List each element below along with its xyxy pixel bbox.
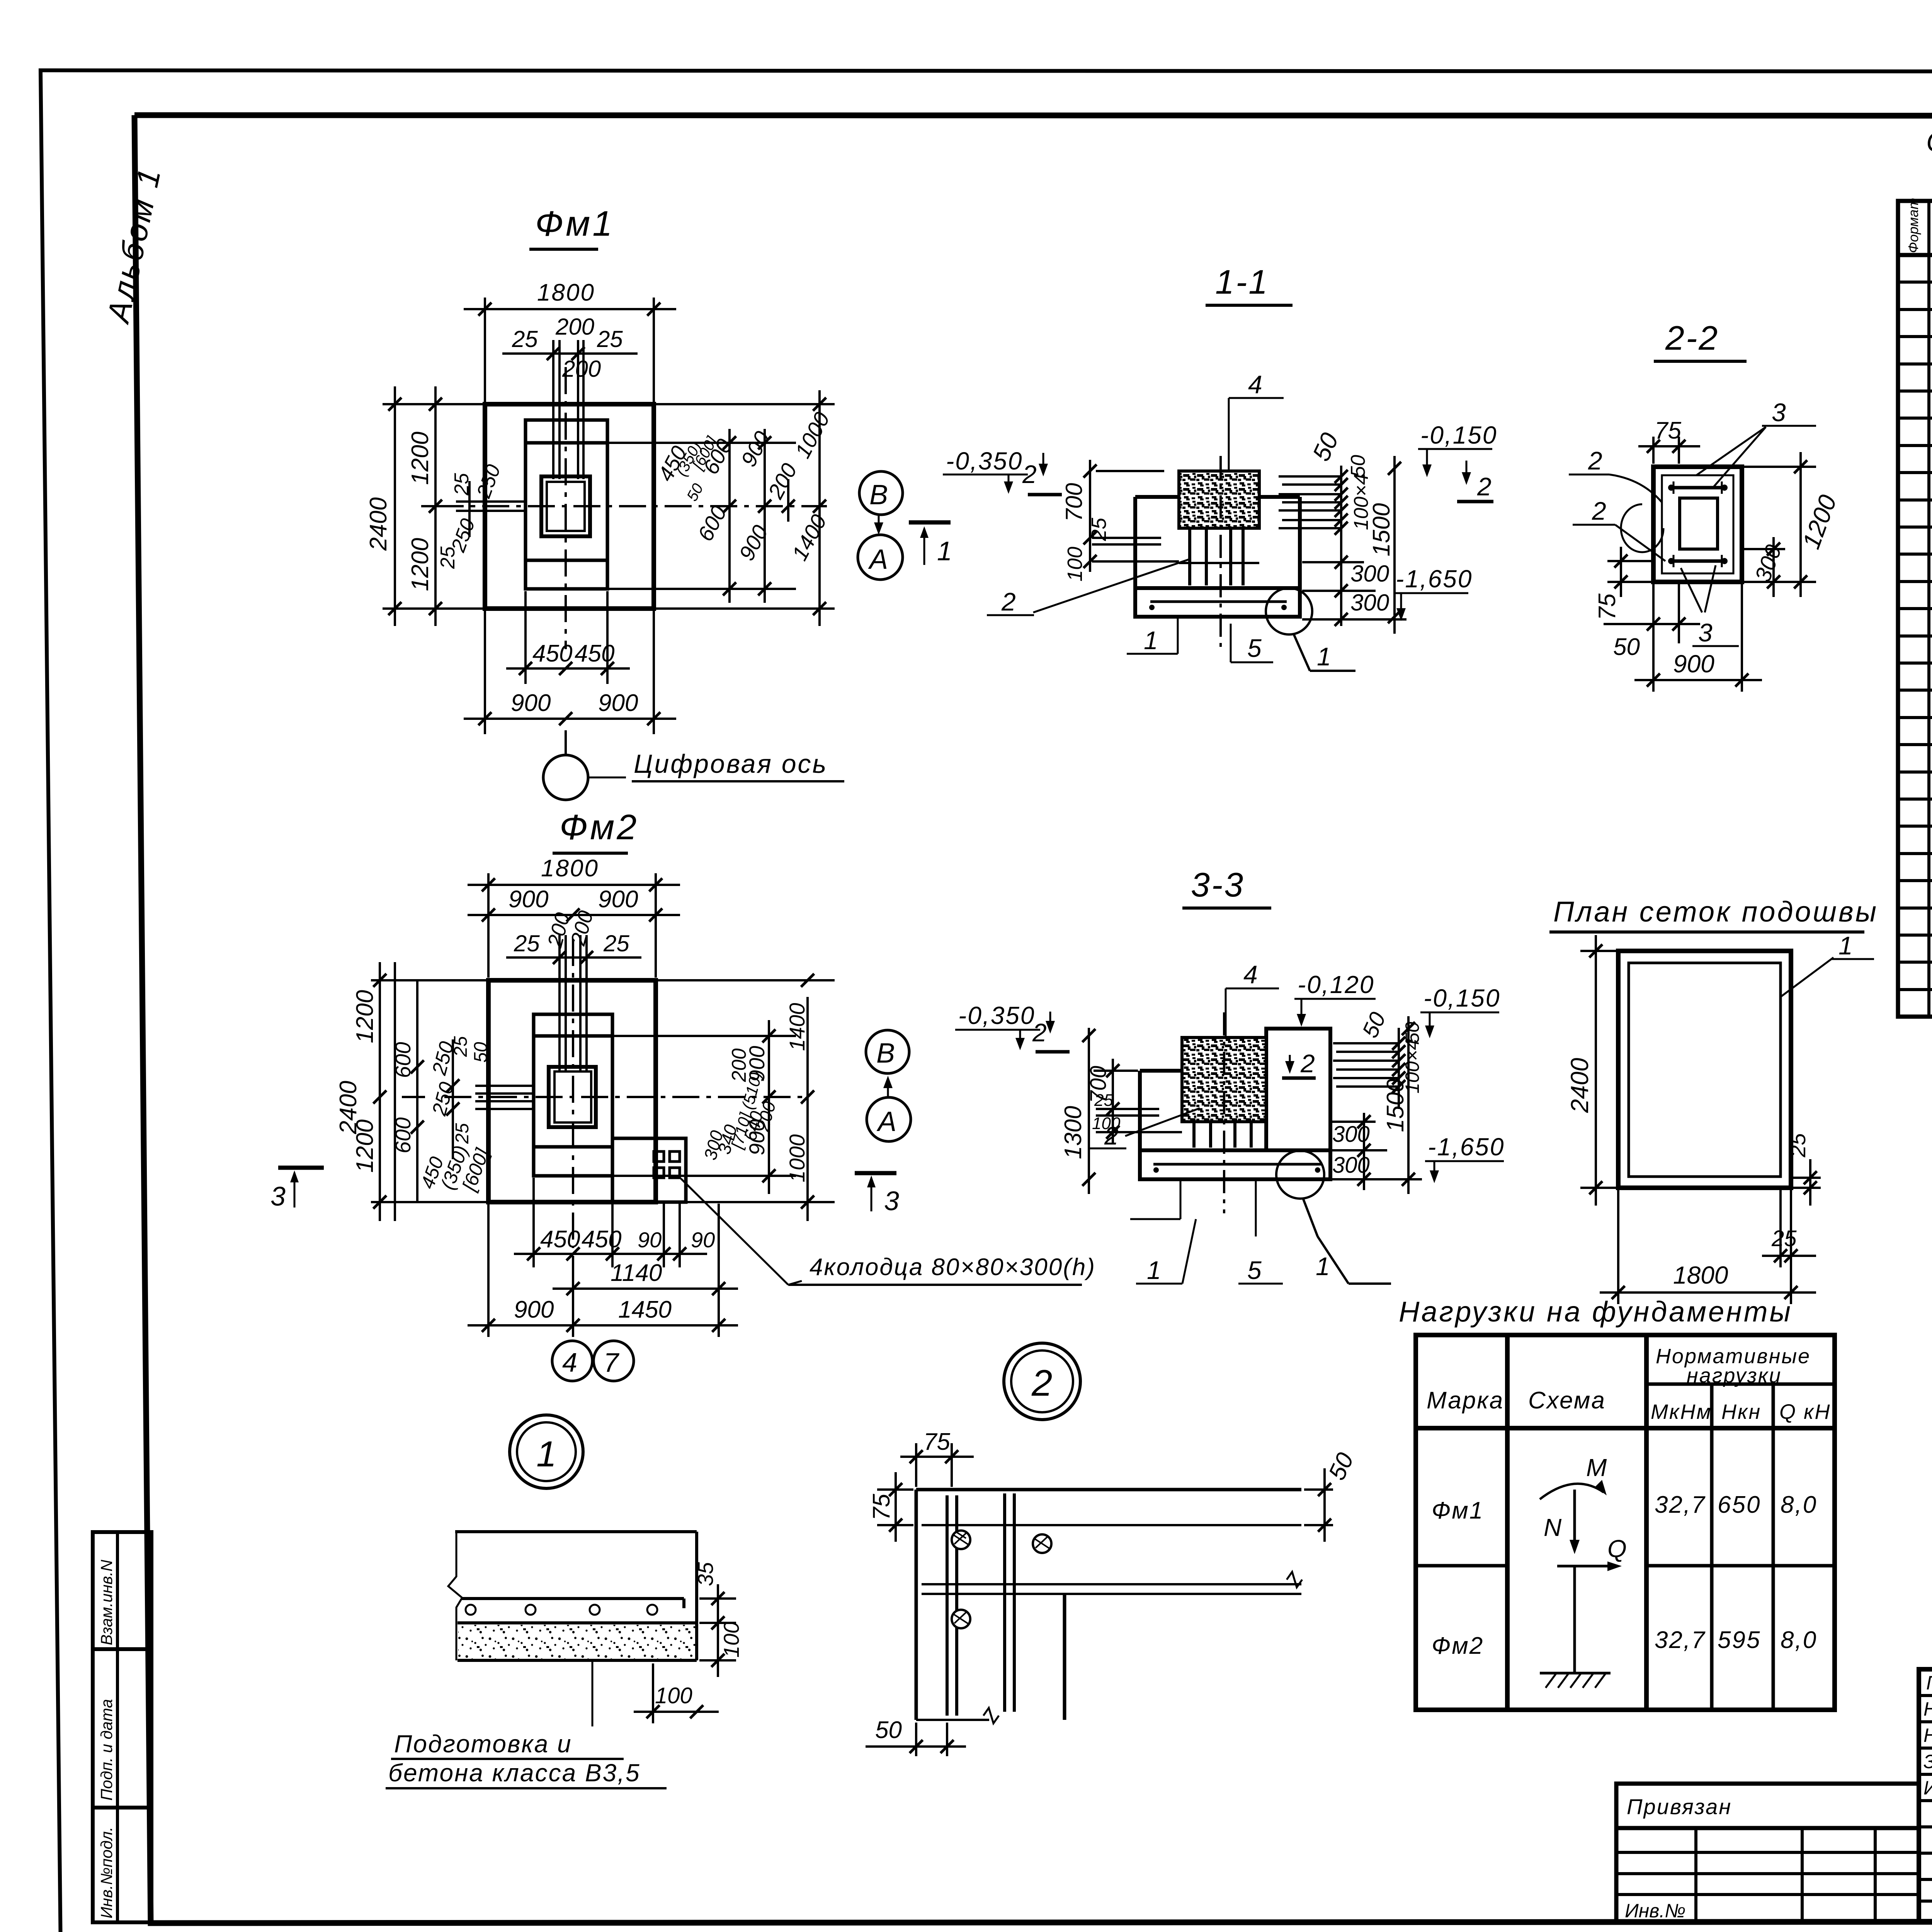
Fm1 top dimension 1800	[464, 298, 676, 402]
node 2 dims 75 75 50 50	[900, 1443, 974, 1487]
svg-text:600: 600	[391, 1117, 415, 1153]
svg-text:75: 75	[923, 1429, 950, 1455]
svg-text:5: 5	[1247, 1256, 1262, 1284]
svg-text:1500: 1500	[1382, 1079, 1409, 1132]
Fm2 bottom dims 450 450 90 90	[514, 1178, 707, 1267]
left margin boxes	[93, 1532, 151, 1922]
Fm2 axis circles B A	[866, 1030, 911, 1141]
section 3-3 right spacing marks	[1333, 1028, 1399, 1109]
svg-text:1: 1	[1316, 1252, 1330, 1281]
Fm1 left small dims 25 250 250 25	[456, 481, 526, 537]
plan setok leader 1	[1781, 931, 1874, 997]
svg-text:5: 5	[1247, 634, 1262, 662]
svg-text:Цифровая ось: Цифровая ось	[634, 749, 828, 779]
svg-text:Спецификация элементов монол: Спецификация элементов монолитной	[1926, 127, 1932, 158]
svg-text:900: 900	[514, 1296, 554, 1323]
loads table data	[1432, 1492, 1817, 1659]
svg-text:25: 25	[1094, 1091, 1113, 1110]
svg-text:450: 450	[575, 640, 614, 667]
svg-text:25: 25	[1087, 517, 1111, 541]
section 1-1 rebars	[1190, 528, 1243, 585]
Fm2 top small dims 25 200 200 25	[506, 935, 641, 1070]
svg-text:90: 90	[638, 1228, 662, 1252]
svg-text:3: 3	[884, 1186, 899, 1216]
section 3-3 level -1,650	[1425, 1133, 1505, 1183]
section 2-2 mesh bars	[1668, 481, 1727, 567]
svg-text:8,0: 8,0	[1781, 1492, 1817, 1518]
svg-text:Марка: Марка	[1427, 1387, 1504, 1414]
svg-text:2: 2	[1477, 472, 1492, 501]
node 1 stipple band (concrete preparation)	[458, 1625, 695, 1659]
svg-text:1450: 1450	[618, 1296, 672, 1323]
svg-text:2: 2	[1001, 587, 1016, 616]
section 3-3 leader 2	[1090, 1108, 1200, 1150]
Fm1 bottom dims 450 450 900 900	[464, 591, 676, 734]
svg-text:Н.контр.: Н.контр.	[1923, 1725, 1932, 1746]
svg-text:1200: 1200	[407, 432, 434, 485]
node 1 dims 35 100 100	[634, 1584, 736, 1723]
svg-text:3: 3	[1772, 398, 1786, 427]
Fm1 center axes	[437, 367, 827, 649]
node 1 detail circle	[510, 1415, 583, 1488]
node 2 vertical rebars	[947, 1493, 1014, 1716]
specification table grid	[1898, 201, 1932, 1017]
svg-text:Инв.№: Инв.№	[1625, 1900, 1685, 1922]
title block signature table	[1919, 1669, 1932, 1922]
svg-text:595: 595	[1718, 1627, 1761, 1653]
svg-text:Зав.гр.: Зав.гр.	[1923, 1751, 1932, 1772]
section 1-1 right dims 300 300 1500	[1302, 456, 1406, 634]
svg-text:Фм2: Фм2	[1432, 1633, 1484, 1659]
section 3-3 level -0,150	[1420, 984, 1500, 1038]
svg-text:3: 3	[1698, 618, 1713, 647]
svg-text:1: 1	[1317, 642, 1331, 671]
svg-text:1: 1	[1144, 626, 1158, 655]
section 3-3 title	[1182, 866, 1271, 908]
svg-text:1500: 1500	[1368, 503, 1395, 556]
section 2-2 bottom dim 900	[1634, 584, 1762, 692]
svg-text:МкНм: МкНм	[1651, 1400, 1712, 1423]
section 1-1 bottom labels 1 5	[1127, 617, 1273, 662]
svg-text:А: А	[876, 1106, 896, 1137]
svg-text:2400: 2400	[365, 497, 392, 551]
svg-text:2: 2	[1592, 497, 1606, 525]
svg-text:32,7: 32,7	[1655, 1627, 1706, 1653]
section 2-2 right dims 300 1200	[1744, 452, 1816, 597]
section mark 1 near axis circles	[909, 522, 952, 566]
section 2-2 bottom-left dims 75 50 and leader 3	[1604, 547, 1700, 643]
svg-text:1800: 1800	[541, 855, 599, 882]
Fm1 plan outline	[485, 404, 654, 609]
section 1-1 slab mesh	[1149, 602, 1287, 610]
svg-text:1800: 1800	[1673, 1261, 1728, 1289]
svg-text:Q: Q	[1607, 1535, 1627, 1563]
svg-text:1: 1	[1838, 931, 1853, 960]
svg-text:Инж.: Инж.	[1923, 1777, 1932, 1799]
section 3-3 rebars	[1194, 1122, 1251, 1148]
plan setok outline	[1618, 951, 1791, 1188]
svg-text:4колодца 80×80×300(h): 4колодца 80×80×300(h)	[810, 1254, 1096, 1281]
section 1-1 level -0,350	[943, 447, 1062, 495]
svg-text:2400: 2400	[335, 1081, 362, 1134]
svg-text:25: 25	[1771, 1226, 1797, 1251]
svg-text:В: В	[869, 480, 888, 510]
section 3-3 left dims 1300 700 25 100	[1089, 1028, 1182, 1194]
svg-text:нагрузки: нагрузки	[1687, 1364, 1782, 1387]
svg-text:90: 90	[691, 1228, 715, 1252]
Fm1 top small dims 25 200 25 200	[502, 340, 638, 479]
svg-text:Привязан: Привязан	[1627, 1794, 1732, 1819]
section 3-3 body	[1140, 1029, 1330, 1179]
section 3-3 right dims 300 300 1500	[1332, 1016, 1422, 1194]
Fm2 left dims 1200 1200 2400	[371, 962, 486, 1221]
svg-text:100: 100	[719, 1622, 743, 1658]
Fm2 wells leader text	[681, 1179, 1096, 1285]
svg-text:300: 300	[1332, 1153, 1370, 1178]
svg-text:100: 100	[655, 1683, 692, 1708]
svg-text:Инв.№подл.: Инв.№подл.	[97, 1827, 116, 1918]
svg-text:-0,150: -0,150	[1420, 421, 1497, 449]
svg-text:2: 2	[1022, 460, 1037, 488]
svg-text:А: А	[868, 544, 888, 575]
svg-text:Q кН: Q кН	[1779, 1400, 1831, 1423]
svg-text:1200: 1200	[407, 538, 434, 591]
svg-text:1800: 1800	[537, 279, 595, 306]
svg-text:Формат: Формат	[1905, 198, 1921, 253]
section 1-1 left dims 700 25 100	[1090, 460, 1179, 572]
svg-text:7: 7	[604, 1347, 620, 1378]
section 1-1 node circle leader	[1266, 588, 1355, 671]
section 1-1 right spacing marks	[1279, 466, 1341, 626]
svg-text:75: 75	[1655, 417, 1681, 444]
svg-text:1: 1	[536, 1434, 556, 1474]
svg-text:Фм2: Фм2	[560, 808, 639, 847]
svg-text:2: 2	[1104, 1121, 1119, 1150]
svg-text:450: 450	[532, 640, 572, 667]
node 2 hatched bar circles	[952, 1531, 1051, 1628]
loads schema drawing	[1540, 1480, 1622, 1688]
svg-text:200: 200	[562, 356, 601, 382]
privyazan box	[1616, 1784, 1919, 1922]
Fm2 plan outline	[488, 980, 686, 1202]
svg-text:2: 2	[1300, 1049, 1315, 1078]
section 3-3 level -0,120	[1282, 971, 1376, 1078]
svg-text:4: 4	[1248, 370, 1262, 399]
section 3-3 level -0,350	[955, 1002, 1070, 1052]
Fm2 top dims 1800 900 900	[468, 873, 680, 978]
svg-text:25: 25	[437, 546, 459, 569]
svg-text:3: 3	[270, 1181, 286, 1211]
svg-text:1200: 1200	[352, 990, 378, 1043]
svg-text:25: 25	[514, 930, 540, 956]
section 1-1 level -0,150	[1418, 421, 1497, 502]
svg-text:Фм1: Фм1	[535, 204, 614, 243]
Fm1 digital axis circle	[543, 730, 844, 800]
section 1-1 hatched column stub	[1179, 471, 1259, 528]
section 1-1 title	[1206, 263, 1293, 305]
svg-text:25: 25	[603, 930, 629, 956]
Fm2 axis circles 4 7	[552, 1341, 634, 1381]
svg-text:Нагрузки на фундаменты: Нагрузки на фундаменты	[1399, 1296, 1793, 1328]
svg-text:Схема: Схема	[1528, 1387, 1606, 1414]
svg-text:25: 25	[1786, 1133, 1810, 1158]
Fm1 right dims	[607, 390, 835, 626]
svg-text:План сеток подошвы: План сеток подошвы	[1553, 896, 1878, 928]
svg-text:1140: 1140	[611, 1260, 662, 1286]
svg-text:1000: 1000	[785, 1134, 809, 1182]
svg-text:200: 200	[555, 314, 594, 340]
svg-text:3-3: 3-3	[1191, 866, 1245, 904]
section 2-2 leaders 2	[1569, 446, 1665, 561]
specification table header texts	[1905, 198, 1932, 253]
Fm2 wells 4x 80x80	[654, 1151, 680, 1178]
svg-text:Нач.отд.: Нач.отд.	[1923, 1698, 1932, 1720]
plan setok bottom dims 1800 25	[1600, 1190, 1816, 1304]
svg-text:2400: 2400	[1566, 1058, 1594, 1113]
svg-text:8,0: 8,0	[1781, 1627, 1817, 1653]
svg-text:450: 450	[540, 1226, 580, 1253]
svg-text:50: 50	[1613, 634, 1640, 660]
svg-text:600: 600	[391, 1042, 415, 1078]
svg-text:-0,350: -0,350	[946, 447, 1023, 475]
svg-text:300: 300	[1350, 561, 1389, 587]
Fm1 left dims 2400 1200 1200	[383, 386, 483, 626]
Fm2 bottom dims 1140 900 1450	[468, 1204, 738, 1337]
svg-text:25: 25	[452, 1123, 473, 1144]
section 2-2 outline	[1653, 467, 1742, 582]
Fm1 title	[529, 204, 614, 249]
svg-text:бетона класса В3,5: бетона класса В3,5	[388, 1759, 641, 1787]
svg-text:2: 2	[1031, 1362, 1052, 1404]
plan setok left dim 2400	[1580, 935, 1616, 1206]
svg-text:ГИП: ГИП	[1926, 1672, 1932, 1694]
svg-text:900: 900	[509, 886, 548, 913]
svg-text:Подготовка и: Подготовка и	[394, 1730, 572, 1758]
svg-text:Нкн: Нкн	[1721, 1400, 1761, 1423]
Fm2 title	[553, 808, 639, 853]
node 1 rebar with circles	[462, 1599, 684, 1615]
svg-text:1: 1	[937, 536, 952, 566]
svg-text:32,7: 32,7	[1655, 1492, 1706, 1518]
section 3-3 center dash line	[1223, 1012, 1225, 1213]
plan setok podoshvy title	[1549, 896, 1878, 932]
section 1-1 center dash line	[1219, 456, 1222, 649]
svg-text:300: 300	[1350, 590, 1389, 616]
svg-text:900: 900	[598, 886, 638, 913]
svg-text:450: 450	[582, 1226, 621, 1253]
svg-text:25: 25	[451, 473, 473, 496]
svg-text:25: 25	[512, 326, 538, 352]
svg-text:50: 50	[875, 1717, 902, 1743]
svg-text:300: 300	[1332, 1122, 1370, 1147]
svg-text:В: В	[876, 1038, 895, 1069]
section 3-3 label 4	[1226, 960, 1279, 1037]
svg-text:-0,350: -0,350	[958, 1002, 1035, 1029]
plan setok right dim 25	[1793, 1159, 1821, 1206]
svg-text:-1,650: -1,650	[1396, 565, 1473, 593]
svg-text:1400: 1400	[785, 1003, 809, 1051]
svg-text:25: 25	[451, 1036, 471, 1057]
svg-text:100: 100	[1063, 547, 1087, 582]
svg-text:50: 50	[471, 1042, 491, 1063]
svg-text:25: 25	[597, 326, 623, 352]
section 3-3 node circle leader	[1276, 1151, 1391, 1284]
svg-text:1: 1	[1147, 1256, 1161, 1284]
svg-text:900: 900	[511, 690, 551, 716]
svg-text:1300: 1300	[1060, 1106, 1087, 1159]
section 2-2 top dim 75 and leader 3	[1638, 437, 1700, 464]
svg-text:900: 900	[598, 690, 638, 716]
node 2 break marks	[1287, 1572, 1302, 1587]
Fm2 left small dims 600 250 250 50 25	[417, 980, 534, 1202]
svg-text:М: М	[1586, 1454, 1607, 1481]
section 1-1 leader 2	[987, 560, 1189, 616]
specification table title	[1926, 127, 1932, 196]
svg-text:75: 75	[1594, 594, 1621, 620]
node 1 detail drawing	[448, 1532, 697, 1660]
svg-text:2: 2	[1588, 446, 1602, 475]
node 2 detail drawing	[916, 1490, 1301, 1720]
title block signature texts	[1923, 1672, 1932, 1799]
svg-text:4: 4	[1243, 960, 1258, 989]
svg-text:2: 2	[1032, 1018, 1047, 1047]
section 3-3 bottom labels 1 5	[1130, 1181, 1283, 1284]
svg-text:-0,150: -0,150	[1423, 984, 1500, 1012]
svg-text:2-2: 2-2	[1665, 319, 1719, 357]
svg-text:35: 35	[693, 1562, 718, 1586]
Fm2 section marks 3	[270, 1168, 899, 1216]
svg-text:4: 4	[562, 1347, 577, 1378]
section 2-2 title	[1654, 319, 1747, 361]
Fm2 center axes	[444, 939, 808, 1248]
svg-text:Взам.инв.N: Взам.инв.N	[97, 1560, 116, 1645]
svg-text:Подп. и дата: Подп. и дата	[97, 1699, 116, 1801]
svg-text:-0,120: -0,120	[1298, 971, 1374, 998]
svg-text:900: 900	[1673, 650, 1714, 678]
node 1 label podgotovka	[386, 1660, 667, 1788]
section 3-3 hatched column stub	[1182, 1037, 1266, 1122]
section 1-1 label 4	[1229, 370, 1284, 471]
svg-text:700: 700	[1061, 483, 1087, 522]
svg-text:N: N	[1544, 1514, 1562, 1541]
svg-text:Фм1: Фм1	[1432, 1497, 1484, 1524]
svg-text:75: 75	[868, 1494, 895, 1520]
Fm2 right dims	[612, 980, 835, 1221]
loads table grid	[1416, 1335, 1835, 1710]
loads table header texts	[1427, 1345, 1831, 1423]
svg-text:-1,650: -1,650	[1428, 1133, 1505, 1161]
svg-text:1-1: 1-1	[1215, 263, 1269, 301]
section 1-1 level -1,650	[1393, 565, 1473, 621]
node 2 detail circle	[1004, 1343, 1080, 1420]
svg-text:650: 650	[1718, 1492, 1761, 1518]
axis circles B and A for Fm1	[858, 471, 903, 580]
section 3-3 slab mesh	[1153, 1164, 1321, 1173]
section 1-1 body	[1135, 497, 1300, 617]
